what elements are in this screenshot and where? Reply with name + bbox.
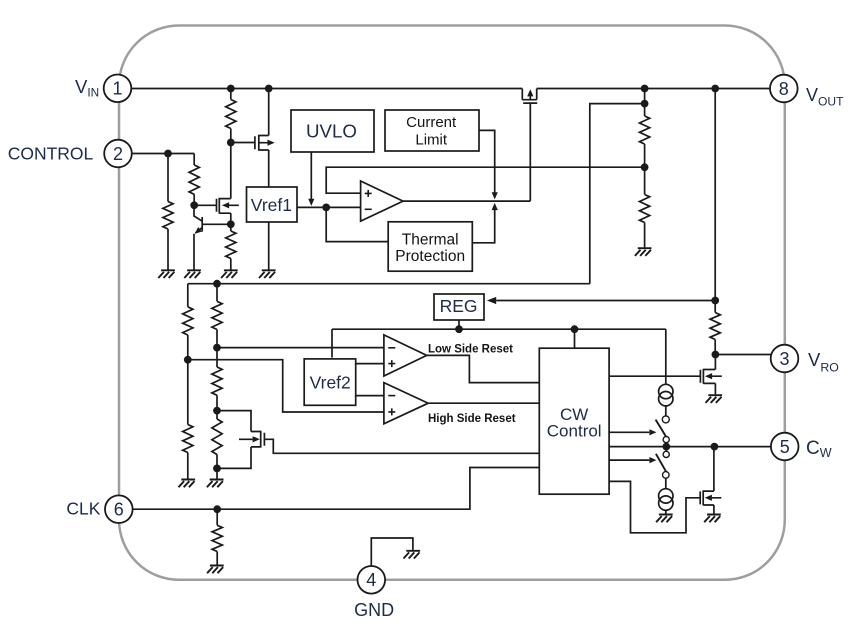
ground R2 — [158, 270, 175, 278]
wire current limit to gate — [479, 130, 495, 192]
wire sense link down — [590, 104, 645, 284]
block Vref1 — [247, 187, 298, 222]
wire Q2 source — [230, 213, 232, 224]
wire R13 leads — [714, 301, 716, 355]
wire R1 leads — [230, 89, 232, 143]
wire thermal protection to gate — [472, 210, 494, 243]
switch SW1 blade — [656, 420, 666, 437]
junction divider node A — [213, 344, 221, 352]
transistor Q1 — [255, 135, 269, 151]
wire R2 leads — [167, 154, 169, 270]
junction divider node B — [213, 407, 221, 415]
block Vref2 — [304, 359, 356, 405]
wire R4 leads — [230, 224, 232, 269]
svg-text:5: 5 — [780, 437, 790, 457]
svg-text:4: 4 — [366, 570, 376, 590]
svg-text:CLK: CLK — [66, 499, 100, 519]
svg-text:VRO: VRO — [808, 349, 839, 375]
ground R11 — [207, 480, 224, 488]
svg-text:2: 2 — [113, 144, 123, 164]
wire switch SW1 drive — [609, 431, 649, 433]
transistor Q7 — [700, 490, 721, 505]
wire U2 output — [427, 355, 540, 382]
junction CW switch node — [662, 443, 670, 451]
wire VIN rail left — [131, 88, 522, 90]
svg-text:VOUT: VOUT — [806, 85, 844, 109]
svg-text:GND: GND — [354, 600, 394, 620]
wire to Q2 gate — [194, 204, 216, 206]
wire CW control top stub — [574, 329, 576, 348]
wire R12 leads — [216, 509, 218, 565]
wire U3 output — [428, 402, 539, 404]
ground R4 — [221, 270, 238, 278]
wire R8 leads — [187, 360, 189, 479]
junction REG node — [711, 297, 719, 305]
svg-text:High Side Reset: High Side Reset — [428, 413, 516, 425]
wire switch SW2 drive — [609, 459, 649, 461]
wire to U3 plus — [188, 360, 384, 412]
svg-text:1: 1 — [112, 79, 122, 99]
svg-text:Thermal: Thermal — [402, 232, 459, 249]
junction divider mid — [641, 163, 649, 171]
resistor R12 — [212, 525, 222, 551]
pin 3 VRO — [771, 345, 799, 373]
resistor R3 — [189, 165, 199, 194]
junction CW FET node — [711, 443, 719, 451]
wire Vref2 to U3 minus — [356, 395, 384, 397]
ground Q7 — [704, 515, 721, 523]
wire Q6 source link — [217, 447, 251, 469]
wire Vref1 ground lead — [268, 222, 270, 270]
ground R6 — [635, 248, 652, 256]
wire Q7 drain — [713, 447, 715, 492]
wire Q4 gate — [529, 103, 531, 201]
resistor R10 — [212, 367, 222, 395]
wire Q7 source — [713, 505, 715, 514]
svg-text:8: 8 — [779, 79, 789, 99]
resistor R5 — [640, 116, 650, 144]
transistor Q3 BJT — [194, 205, 231, 269]
wire Q1 drain — [268, 89, 270, 136]
wire REG rail — [332, 328, 666, 330]
wire Vref2 to U2 plus — [356, 363, 384, 365]
junction top rail right — [711, 85, 719, 93]
junction divider node C — [213, 465, 221, 473]
svg-text:Low Side Reset: Low Side Reset — [428, 344, 513, 356]
wire R10 leads — [216, 348, 218, 411]
block UVLO — [291, 110, 374, 152]
svg-text:Vref1: Vref1 — [251, 195, 292, 215]
block Current Limit — [385, 110, 479, 151]
wire UVLO output — [310, 152, 312, 200]
transistor Q6 — [239, 431, 264, 448]
wire CONTROL — [132, 153, 194, 155]
junction CW top — [571, 325, 579, 333]
comparator U2 — [384, 335, 427, 376]
block Thermal Protection — [388, 222, 472, 271]
wire to thermal protection — [326, 207, 388, 241]
wire Q6 gate to CW control — [264, 439, 539, 453]
wire to REG — [496, 300, 715, 302]
svg-text:VIN: VIN — [75, 76, 99, 100]
wire VOUT right vertical — [714, 89, 716, 301]
svg-text:3: 3 — [779, 349, 789, 369]
wire to Q1 gate — [231, 142, 255, 144]
wire R11 leads — [216, 411, 218, 479]
junction CLK — [213, 505, 221, 513]
svg-text:Limit: Limit — [415, 131, 448, 148]
wire CW line — [609, 446, 771, 448]
wire R9 leads — [216, 284, 218, 348]
resistor R8 — [183, 425, 193, 453]
wire to pin 3 — [715, 354, 771, 356]
junction mid rail — [213, 280, 221, 288]
wire GND pin link — [371, 538, 413, 566]
switch SW1 lower contact — [663, 437, 669, 443]
comparator U3 — [384, 383, 428, 424]
wire CW to Q5 gate — [609, 375, 700, 377]
wire Q6 drain link — [217, 411, 251, 432]
wire R5 leads — [644, 104, 646, 168]
block CW Control — [539, 348, 609, 494]
wire VIN rail right — [537, 88, 770, 90]
wire op-amp output — [403, 200, 530, 202]
wire to U2 minus — [217, 347, 384, 349]
wire CW to Q7 gate — [609, 481, 700, 532]
resistor R2 — [163, 202, 173, 230]
svg-text:Vref2: Vref2 — [310, 372, 351, 392]
junction top rail divider — [641, 85, 649, 93]
wire divider top — [644, 89, 646, 104]
ground R8 — [179, 480, 196, 488]
wire SW2 to I2 — [665, 478, 667, 489]
wire R7 leads — [187, 284, 189, 360]
resistor R1 — [226, 100, 236, 129]
ground Q5 — [706, 395, 723, 403]
junction sense node — [641, 100, 649, 108]
junction Q2 gate node — [190, 201, 198, 209]
pin 8 VOUT — [770, 75, 798, 103]
junction Q2 source node — [227, 220, 235, 228]
pin 4 GND — [358, 566, 386, 594]
junction VRO node — [712, 351, 720, 359]
wire I1 to SW1 — [665, 406, 667, 416]
svg-text:UVLO: UVLO — [306, 120, 357, 141]
junction Vref1 node — [322, 204, 330, 212]
wire Q2 drain — [230, 143, 232, 199]
current source I1 — [659, 384, 673, 406]
junction REG bottom — [455, 325, 463, 333]
resistor R11 — [212, 419, 222, 455]
IC body outline — [119, 26, 785, 580]
wire Q1 source to Vref1 — [268, 150, 270, 187]
wire REG rail to Vref2 — [331, 329, 333, 357]
wire R6 leads — [644, 167, 646, 247]
wire to current source I1 — [665, 329, 667, 384]
ground Q3 emitter — [184, 270, 201, 278]
current source I2 — [659, 489, 673, 511]
transistor Q2 — [217, 198, 239, 214]
wire REG stub — [458, 320, 460, 329]
switch SW2 upper contact — [663, 451, 669, 457]
resistor R7 — [183, 307, 193, 335]
wire CLK — [133, 468, 540, 510]
svg-text:Control: Control — [547, 421, 602, 440]
wire I2 to ground — [665, 510, 667, 514]
transistor Q4 pass FET — [522, 89, 537, 104]
ground I2 — [656, 515, 673, 523]
junction Q1 gate node — [227, 139, 235, 147]
pin 5 CW — [771, 433, 799, 461]
svg-text:6: 6 — [114, 500, 124, 520]
pin 2 CONTROL — [104, 140, 132, 168]
transistor Q5 — [700, 369, 721, 384]
resistor R9 — [212, 301, 222, 329]
junction CONTROL R2 — [164, 150, 172, 158]
junction left divider mid — [184, 356, 192, 364]
block REG — [434, 294, 484, 320]
wire Vref1 output — [297, 206, 361, 208]
svg-text:REG: REG — [440, 296, 478, 316]
junction top rail R1 — [227, 85, 235, 93]
svg-text:Current: Current — [406, 114, 457, 131]
svg-text:CW: CW — [806, 438, 832, 460]
wire Q5 source — [714, 383, 716, 394]
svg-text:Protection: Protection — [395, 248, 465, 265]
switch SW2 blade — [656, 454, 666, 472]
wire feedback to op-amp + — [326, 167, 644, 193]
switch SW1 upper contact — [662, 416, 669, 423]
switch SW2 lower contact — [663, 472, 670, 479]
wire SW1 to CW line — [665, 443, 667, 447]
ground R12 — [207, 566, 224, 574]
svg-text:CONTROL: CONTROL — [8, 144, 94, 164]
junction top rail Q1 — [265, 85, 273, 93]
pin 1 VIN — [104, 75, 132, 103]
ground Vref1 — [259, 270, 276, 278]
wire mid rail — [188, 283, 590, 285]
resistor R4 — [226, 231, 236, 259]
wire R3 leads — [193, 154, 195, 206]
wire CW line to SW2 — [665, 447, 667, 452]
ground GND pin — [404, 551, 421, 559]
resistor R6 — [640, 195, 650, 223]
wire Q5 drain — [714, 355, 716, 370]
op-amp U1 — [361, 181, 403, 221]
pin 6 CLK — [105, 495, 133, 523]
resistor R13 — [710, 313, 720, 340]
